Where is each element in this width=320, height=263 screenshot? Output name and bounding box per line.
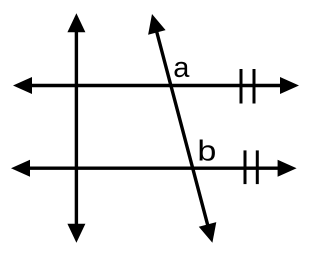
- svg-text:b: b: [197, 136, 216, 168]
- svg-text:a: a: [173, 52, 190, 84]
